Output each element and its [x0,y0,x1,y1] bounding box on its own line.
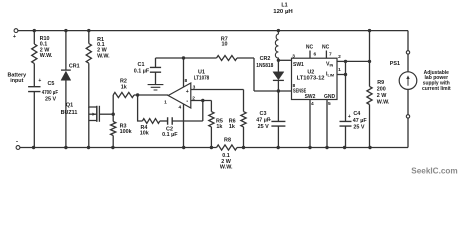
svg-text:W.W.: W.W. [377,99,390,105]
wire bottom return rail (right of R8) [237,147,408,149]
wire top rail corner down to PS1 [407,31,409,51]
svg-text:8: 8 [292,83,295,89]
svg-text:47 µF: 47 µF [256,118,271,124]
resistor R5 [209,112,214,127]
svg-text:LT1073-12: LT1073-12 [297,76,325,82]
resistor R1 [86,44,91,64]
pin 1 ILIM stub [337,74,346,76]
svg-text:2 W: 2 W [377,93,387,99]
svg-text:+: + [38,78,41,84]
svg-text:200: 200 [377,87,386,93]
wire C5 to bottom rail [33,92,35,148]
svg-text:1k: 1k [216,124,222,130]
wire R5 to bottom rail [210,127,212,148]
svg-text:4: 4 [178,105,181,111]
node VIN tie [344,60,347,63]
node R3 bottom on rail [111,146,114,149]
ground symbol [148,85,164,90]
svg-text:0.1 µF: 0.1 µF [162,132,178,138]
svg-text:PS1: PS1 [390,61,400,67]
wire VIN to supply column [346,60,370,62]
inductor L1 120uH [275,31,278,61]
node R6 bottom on rail [242,146,245,149]
wire VIN-ILIM tie [345,61,347,74]
svg-text:CR1: CR1 [69,63,80,69]
svg-text:4: 4 [311,101,314,107]
wire sense node to C3 [277,91,279,121]
svg-text:2: 2 [192,95,195,101]
wire C2 to inverting input node [172,101,203,122]
svg-text:+: + [13,34,16,40]
svg-text:+: + [348,114,351,120]
resistor R8 current sense [217,145,238,150]
svg-text:3: 3 [193,85,196,91]
transistor Q1 body stub and arrow [89,113,97,115]
node gate junction [112,113,115,116]
svg-text:25 V: 25 V [353,124,364,130]
pin 3 noninverting input of U1 [191,89,244,91]
node U1 pin4 on rail [182,146,185,149]
svg-text:C3: C3 [260,111,267,117]
transistor Q1 gate bar [98,106,100,122]
svg-text:1k: 1k [229,124,235,130]
node SW2 on rail [308,146,311,149]
pin 7 NC of U2 [325,51,327,59]
svg-text:0.1 µF: 0.1 µF [134,69,150,75]
wire CR1 anode to bottom rail [65,80,67,147]
pin 4 V- of U1 [183,104,185,148]
node CR1 top on rail [64,29,67,32]
wire R9 top [369,31,371,87]
wire jack to PS1 [407,54,409,72]
wire C1 to ground [155,72,157,84]
svg-text:8: 8 [184,78,187,84]
wire R2 to op-amp output [134,94,168,96]
node C4 bottom on rail [343,146,346,149]
wire R7 to output sense node [237,58,292,91]
svg-text:NC: NC [322,44,330,50]
node R10 top on rail [33,29,36,32]
pin 2 VIN stub [337,60,346,62]
transistor Q1 BUZ11 channel bar [96,106,98,122]
svg-text:GND: GND [324,94,336,100]
wire R4 to C2 [160,120,168,122]
svg-text:SeekIC.com: SeekIC.com [411,167,457,176]
svg-text:1: 1 [164,99,167,105]
svg-text:-: - [186,99,188,105]
terminal PS1 top jack [406,51,409,54]
pin 5 GND of U2 [326,100,328,148]
node C5 bottom on rail [32,146,35,149]
svg-text:SW1: SW1 [293,62,304,68]
wire R1 top stub [88,31,90,44]
svg-text:C4: C4 [353,111,360,117]
wire bottom return rail (left of R8) [20,147,217,149]
wire R1 to Q1 drain [89,63,97,107]
wire SW1 stub [278,59,291,61]
svg-text:1: 1 [338,67,341,73]
svg-text:47 µF: 47 µF [353,118,368,124]
node supply column junction [368,60,371,63]
resistor R6 [241,112,246,127]
wire Q1 source to bottom rail [89,107,97,148]
wire pin2 to R5 [210,101,212,112]
node U1 pin8 supply junction [182,56,185,59]
wire top supply rail [18,30,408,32]
wire bottom jack to rail [407,118,409,147]
svg-text:L1: L1 [281,3,287,9]
node ILIM tie [344,73,347,76]
capacitor C2 [168,117,173,125]
wire Q1 gate lead [99,113,113,115]
wire CR1 cathode stub [65,31,67,71]
svg-text:120 µH: 120 µH [273,9,293,15]
svg-text:25 V: 25 V [258,124,269,130]
pin 2 inverting input of U1 [191,100,212,102]
node R5 bottom on rail [210,146,213,149]
node C3 bottom on rail [277,146,280,149]
wire R9 to bottom rail [369,105,371,148]
svg-text:W.W.: W.W. [97,53,110,59]
wire R10 to C5 [33,64,35,87]
IC U2 LT1073-12 body [292,58,338,99]
svg-text:BUZ11: BUZ11 [61,110,78,116]
capacitor C4 [340,121,352,126]
node CR1 bottom on rail [64,146,67,149]
svg-text:C1: C1 [138,62,145,68]
resistor R4 [142,119,159,124]
pin 8 V+ of U1 [183,58,185,87]
svg-text:CR2: CR2 [260,56,271,62]
svg-text:C5: C5 [48,81,55,87]
resistor R2 [113,92,134,97]
resistor R10 [32,44,37,64]
svg-text:+: + [186,89,189,95]
node Q1 source on rail [87,146,90,149]
svg-text:LT1078: LT1078 [194,75,210,81]
resistor R9 [367,86,372,104]
wire C3 to bottom rail [277,126,279,147]
terminal battery - input [16,146,20,150]
svg-text:current limit: current limit [422,86,451,92]
wire R6 to bottom rail [243,127,245,148]
node L1 top on rail [277,29,280,32]
diode CR1 1N (reverse protection) [61,69,71,71]
node inverting input junction [201,99,204,102]
svg-text:Q1: Q1 [66,103,73,109]
svg-text:1N5818: 1N5818 [256,63,273,69]
node switch junction [277,59,280,62]
svg-text:10k: 10k [140,130,149,136]
diode CR2 1N5818 [277,60,279,72]
svg-text:10: 10 [222,41,228,47]
svg-text:5: 5 [328,101,331,107]
svg-text:U2: U2 [307,69,314,75]
wire gate junction up to R2 [112,95,114,114]
svg-text:1k: 1k [121,85,127,91]
pin 4 SW2 of U2 [309,100,311,148]
svg-text:W.W.: W.W. [220,164,233,170]
capacitor C3 [271,121,285,126]
node GND on rail [325,146,328,149]
svg-text:R2: R2 [120,78,127,84]
wire C4 to bottom rail [345,126,347,147]
svg-text:25 V: 25 V [45,97,56,103]
wire feedback down [138,95,143,121]
wire PS1 to bottom jack [407,89,409,114]
node R9 bottom on rail [368,146,371,149]
svg-text:100k: 100k [120,129,132,135]
resistor R3 [112,114,114,121]
pin 6 NC of U2 [309,51,311,59]
svg-text:R9: R9 [377,80,384,86]
capacitor C1 [155,58,157,67]
wire pin3 to R6 [243,90,245,112]
node feedback takeoff [136,93,139,96]
terminal PS1 bottom jack [406,115,409,118]
node R1 top on rail [87,29,90,32]
svg-text:3: 3 [292,54,295,60]
svg-text:4700 µF: 4700 µF [42,90,59,96]
wire C1 node to R7 [156,57,217,59]
svg-text:2: 2 [338,54,341,60]
power supply PS1 symbol [399,72,417,90]
svg-text:R8: R8 [224,138,231,144]
svg-text:6: 6 [313,51,316,57]
resistor R7 [217,56,238,61]
terminal battery + input [14,29,18,33]
node output sense junction [277,89,280,92]
op-amp U1 LT1078 triangle [168,83,191,108]
svg-text:W.W.: W.W. [40,53,53,59]
svg-text:-: - [16,140,18,146]
capacitor C5 [28,87,40,92]
wire ILIM node to C4 [345,75,347,122]
svg-text:input: input [10,78,23,84]
svg-text:NC: NC [306,44,314,50]
svg-text:SW2: SW2 [305,94,316,100]
wire R10 top stub [33,31,35,44]
node R9 top on rail [368,29,371,32]
svg-text:7: 7 [329,51,332,57]
